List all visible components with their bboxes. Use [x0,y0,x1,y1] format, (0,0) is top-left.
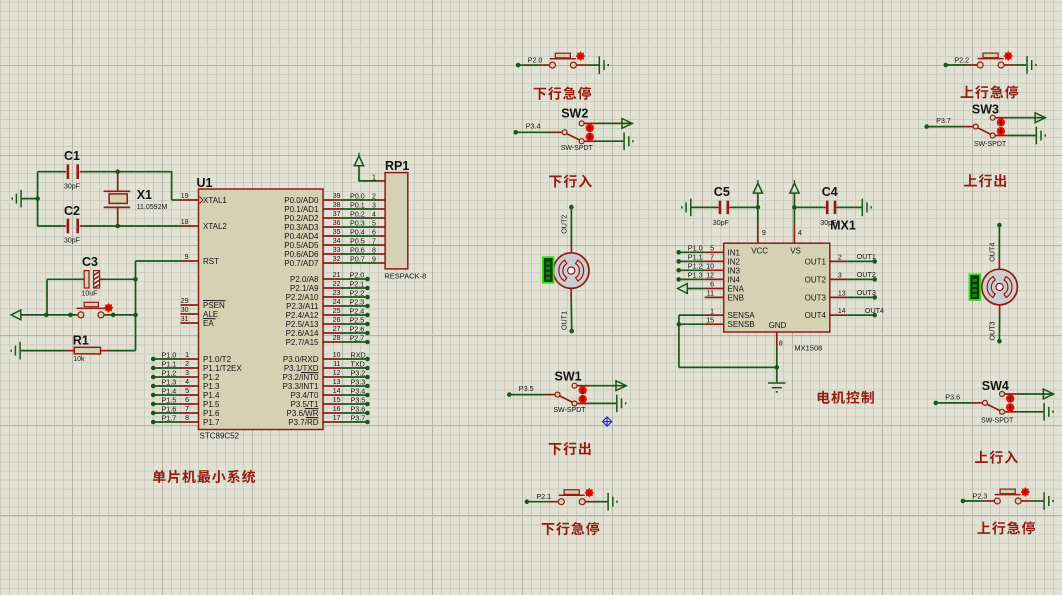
svg-text:4: 4 [372,211,376,218]
svg-text:RST: RST [203,257,219,266]
node OUT4 [872,313,877,318]
wire power to VS node [793,193,795,207]
caption 单片机最小系统 [153,470,255,483]
power symbol (VCC) [753,183,762,193]
wire SW4 throw to gnd [1017,411,1044,413]
node P2.5 [365,322,370,327]
wire P1.0 to IN1 [679,251,705,253]
pin 30 ALE [181,313,199,315]
pin 9 RST [181,260,199,262]
pin 1 SENSA [705,314,724,316]
wire P1.7 [153,421,180,423]
wire SW4 throw to terminal [1017,393,1054,395]
wire power to node [757,193,759,207]
pin 18 XTAL2 [181,225,199,227]
wire button to gnd [596,501,608,503]
motor pin bottom [570,288,572,298]
svg-text:SW2: SW2 [561,107,588,121]
svg-text:4: 4 [185,379,189,386]
svg-text:39: 39 [333,193,341,200]
resistor R1 [74,347,100,354]
wire SENS down [678,315,680,367]
svg-text:P0.2/AD2: P0.2/AD2 [284,214,319,223]
wire P1.1 [153,367,180,369]
node P3.6 [365,411,370,416]
caption 下行急停 (bottom middle) [542,522,600,535]
svg-text:P2.6: P2.6 [350,324,365,333]
wire SW1 throw to terminal [589,385,626,387]
node OUT1 [872,259,877,264]
pin 11 P3.1 [323,367,341,369]
pin 34 P0.5 [323,244,341,246]
wire P2.0 to button [518,64,540,66]
wire P0.0 [341,199,377,201]
svg-text:P0.5: P0.5 [350,236,365,245]
svg-text:P3.4/T0: P3.4/T0 [290,391,319,400]
svg-text:SW3: SW3 [972,102,999,116]
ground (SW2) [624,132,633,150]
svg-text:1: 1 [710,308,714,315]
node button right [133,313,138,318]
svg-text:P2.1: P2.1 [350,279,365,288]
wire gnd to R1 [21,350,65,352]
motor2 pin top [998,260,1000,269]
power symbol VCC [354,156,363,166]
svg-text:P1.2: P1.2 [688,261,703,270]
pin 16 P3.6 [323,412,341,414]
svg-text:2: 2 [372,193,376,200]
node XTAL2 net [115,224,120,229]
svg-text:10uF: 10uF [82,291,98,298]
svg-text:OUT1: OUT1 [857,252,876,261]
svg-text:P0.6: P0.6 [350,245,365,254]
svg-text:P1.1: P1.1 [688,252,703,261]
svg-text:OUT2: OUT2 [560,215,569,234]
svg-text:14: 14 [838,308,846,315]
RP1 pin 9 [377,262,385,264]
svg-text:C2: C2 [64,204,80,218]
wire to C2 [38,225,63,227]
node P2.1 [525,499,530,504]
svg-text:P2.2: P2.2 [350,288,365,297]
svg-text:7: 7 [372,238,376,245]
push button (P2.3 上行急停) [985,500,994,502]
svg-text:35: 35 [333,229,341,236]
svg-text:P3.6: P3.6 [351,404,366,413]
svg-text:5: 5 [372,220,376,227]
wire OUT3 [848,296,875,298]
svg-text:P2.0: P2.0 [528,56,543,65]
svg-text:C3: C3 [82,255,98,269]
wire to power [358,166,360,182]
pin 23 P2.2 [323,296,341,298]
wire to XTAL1 corner [118,171,172,173]
pin 6 ENA [705,288,724,290]
pin 3 OUT2 [830,278,848,280]
caption 下行急停 (top middle) [534,87,592,100]
wire P1.2 to IN3 [679,269,705,271]
svg-text:1: 1 [185,352,189,359]
svg-text:8: 8 [779,340,783,347]
svg-text:30pF: 30pF [64,184,80,191]
wire SENSB [679,323,705,325]
capacitor C4 [826,201,829,214]
R1 pin right [101,350,111,352]
wire OUT4 [848,314,875,316]
svg-text:P2.5/A13: P2.5/A13 [286,320,319,329]
caption 下行入 [549,175,592,188]
wire P2.6 [341,332,367,334]
svg-text:OUT2: OUT2 [805,275,827,284]
node P1.3 (driver) [676,277,681,282]
capacitor C5 [719,201,722,214]
wire VS node to C4 [794,206,823,208]
node P2.3 [365,304,370,309]
ground (driver) [768,383,786,392]
push button (P2.1 下行急停) [549,501,558,503]
pin 21 P2.0 [323,278,341,280]
svg-text:3: 3 [372,202,376,209]
svg-text:11.0592M: 11.0592M [137,204,168,211]
wire gnd to C5 [692,206,717,208]
svg-text:OUT2: OUT2 [857,270,876,279]
capacitor C2 [67,219,70,234]
caption 电机控制 [818,391,874,404]
wire C1 to node [83,171,118,173]
ground (R1) [11,342,20,360]
svg-text:18: 18 [181,219,189,226]
caption 下行出 [549,442,591,455]
node P2.4 [365,313,370,318]
RP1 pin 4 [377,217,385,219]
svg-text:P1.6: P1.6 [203,409,220,418]
wire OUT1 [570,299,573,332]
svg-text:OUT1: OUT1 [805,257,827,266]
svg-text:P1.0: P1.0 [688,243,703,252]
svg-text:P2.0/A8: P2.0/A8 [290,275,319,284]
pin 17 P3.7 [323,421,341,423]
svg-text:9: 9 [372,256,376,263]
svg-text:P2.3/A11: P2.3/A11 [286,302,319,311]
svg-text:27: 27 [333,326,341,333]
wire C3 to node [103,278,136,280]
wire P1.3 to IN4 [679,278,705,280]
svg-text:P3.6: P3.6 [945,392,960,401]
node P1.3 [151,384,156,389]
node driver gnd [775,365,780,370]
node SENSB [677,322,682,327]
pin 1 P1.0 [181,358,199,360]
svg-text:P1.4: P1.4 [203,391,220,400]
wire P2.3 to button [963,500,985,502]
node P3.4 [514,130,519,135]
pin 32 P0.7 [323,262,341,264]
svg-text:30: 30 [181,307,189,314]
wire P0.4 [341,235,377,237]
svg-text:C5: C5 [714,185,730,199]
svg-text:P1.2: P1.2 [203,373,220,382]
svg-text:OUT3: OUT3 [805,293,827,302]
svg-text:OUT3: OUT3 [987,321,996,340]
svg-text:P0.7: P0.7 [350,254,365,263]
svg-text:P3.7/RD: P3.7/RD [288,418,318,427]
svg-text:P0.0/AD0: P0.0/AD0 [284,196,319,205]
svg-text:P2.1/A9: P2.1/A9 [290,284,319,293]
pin 8 GND [776,332,778,346]
pin 4 P1.3 [181,385,199,387]
svg-text:5: 5 [710,246,714,253]
ground (P2.0) [599,56,608,74]
svg-text:6: 6 [710,282,714,289]
wire OUT3 [998,314,1000,341]
wire to XTAL2 [118,225,181,227]
svg-text:P1.1: P1.1 [162,359,177,368]
ground (C4) [862,199,871,217]
node OUT1 [569,329,574,334]
svg-text:6: 6 [372,229,376,236]
pin 19 XTAL1 [181,199,199,201]
node P1.7 [151,420,156,425]
svg-text:P2.3: P2.3 [973,491,988,500]
svg-text:P0.6/AD6: P0.6/AD6 [284,250,319,259]
svg-text:10k: 10k [73,356,85,363]
terminal arrow (reset) [11,310,21,320]
node OUT2 [872,277,877,282]
pin 14 OUT4 [830,314,848,316]
wire P0.1 [341,208,377,210]
node P1.6 [151,411,156,416]
svg-text:P3.1/TXD: P3.1/TXD [284,364,319,373]
C4 pin right [836,206,839,208]
svg-text:OUT4: OUT4 [865,306,884,315]
svg-text:P1.0: P1.0 [162,350,177,359]
svg-text:U1: U1 [197,176,213,190]
pin 12 P3.2 [323,376,341,378]
C1 pin right [80,171,83,173]
svg-text:P0.3/AD3: P0.3/AD3 [284,223,319,232]
svg-text:P3.4: P3.4 [526,122,541,131]
svg-text:16: 16 [333,406,341,413]
node P2.3 [961,499,966,504]
motor2 pin bottom [999,305,1001,314]
wire SW1 throw to gnd [589,402,616,404]
wire C2 to node [83,225,118,227]
svg-text:31: 31 [181,316,189,323]
svg-text:P2.3: P2.3 [350,297,365,306]
svg-text:P3.7: P3.7 [936,116,951,125]
svg-text:OUT3: OUT3 [857,288,876,297]
pin 35 P0.4 [323,235,341,237]
svg-text:15: 15 [333,397,341,404]
svg-text:33: 33 [333,247,341,254]
svg-text:R1: R1 [73,334,89,348]
RP1 pin 8 [377,253,385,255]
pin 13 P3.3 [323,385,341,387]
wire P0.6 [341,253,377,255]
wire P2.7 [341,341,367,343]
svg-text:24: 24 [333,299,341,306]
svg-text:SW-SPDT: SW-SPDT [981,417,1014,424]
svg-text:2: 2 [185,361,189,368]
ground (SW1) [617,395,626,413]
svg-text:38: 38 [333,202,341,209]
pin 27 P2.6 [323,332,341,334]
wire P3.5 to SW1 [509,394,545,396]
wire P3.6 to SW4 [936,402,973,404]
pin 7 IN2 [705,260,724,262]
svg-text:23: 23 [333,290,341,297]
pin 3 P1.2 [181,376,199,378]
svg-text:P3.7: P3.7 [351,413,366,422]
wire C5 to VCC node [732,206,758,208]
MCU U1 body [199,189,324,430]
wire C4 to gnd [839,206,861,208]
wire P3.6 [341,412,367,414]
node P1.5 [151,402,156,407]
wire SW2 throw to terminal [597,122,633,124]
node OUT2 [569,205,574,210]
svg-text:P1.5: P1.5 [162,395,177,404]
origin marker [602,417,612,427]
wire R1 to net [110,350,136,352]
wire to C1 [38,171,63,173]
wire GND pin down [776,346,778,367]
svg-text:P0.4: P0.4 [350,227,365,236]
rpm display (motor2) [970,274,981,300]
C3 pin left [81,278,84,280]
wire P1.2 [153,376,180,378]
node reset b [68,313,73,318]
pin 10 IN3 [705,269,724,271]
svg-text:P3.4: P3.4 [351,386,366,395]
svg-text:IN1: IN1 [728,248,741,257]
wire P2.5 [341,323,367,325]
svg-text:P3.3: P3.3 [351,377,366,386]
wire P2.2 [341,296,367,298]
svg-text:XTAL1: XTAL1 [203,196,227,205]
svg-text:SENSB: SENSB [728,320,755,329]
wire P0.3 [341,226,377,228]
node P1.2 [151,375,156,380]
pin 38 P0.1 [323,208,341,210]
svg-text:P2.5: P2.5 [350,315,365,324]
svg-text:SW4: SW4 [982,379,1009,393]
wire C3 down [46,279,48,315]
svg-text:P1.7: P1.7 [162,413,177,422]
node P2.1 [365,286,370,291]
node P2.6 [365,331,370,336]
pin 15 P3.5 [323,403,341,405]
wire vertical reset net [135,261,137,351]
svg-text:ENB: ENB [728,293,744,302]
wire P0.2 [341,217,377,219]
wire SENS to gnd net [679,366,777,368]
svg-text:P1.3: P1.3 [162,377,177,386]
ground (crystal) [12,190,21,208]
capacitor C1 [67,164,70,179]
node P1.1 (driver) [676,259,681,264]
svg-text:RP1: RP1 [385,159,409,173]
wire OUT2 [848,278,875,280]
node C3 right [133,277,138,282]
wire P1.5 [153,403,180,405]
svg-text:P2.4: P2.4 [350,306,365,315]
svg-text:29: 29 [181,298,189,305]
svg-text:P3.3/INT1: P3.3/INT1 [282,382,319,391]
svg-text:P0.2: P0.2 [350,209,365,218]
R1 pin left [65,350,74,352]
wire to C3 [47,278,81,280]
wire P0.7 [341,262,377,264]
wire P2.2 to button [946,64,968,66]
C1 pin left [63,171,66,173]
switch SW3 (SPDT) [964,126,974,128]
svg-text:14: 14 [333,388,341,395]
svg-text:XTAL2: XTAL2 [203,222,227,231]
node crystal gnd [35,196,40,201]
wire P2.4 [341,314,367,316]
svg-text:P3.2/INT0: P3.2/INT0 [282,373,319,382]
svg-text:SW-SPDT: SW-SPDT [553,407,586,414]
pin 6 P1.5 [181,403,199,405]
wire reset row right [104,314,135,316]
wire RP1 pin1 [359,180,377,182]
C2 pin right [80,225,83,227]
svg-text:2: 2 [838,254,842,261]
node P3.2 [365,375,370,380]
pin 31 EA [181,322,199,324]
svg-text:MX1: MX1 [830,218,856,232]
wire RST [136,260,181,262]
node P3.3 [365,384,370,389]
svg-text:4: 4 [798,230,802,237]
svg-text:P0.3: P0.3 [350,218,365,227]
pin 12 IN4 [705,278,724,280]
wire reset row left [21,314,78,316]
svg-text:P2.4/A12: P2.4/A12 [286,311,319,320]
pin 7 P1.6 [181,412,199,414]
wire SW3 throw to gnd [1008,135,1036,137]
C2 pin left [63,225,66,227]
wire OUT4 [998,225,1000,260]
wire node to VCC pin [757,207,759,224]
svg-text:P3.5: P3.5 [351,395,366,404]
switch SW1 (SPDT) [545,394,555,396]
capacitor C3 (electrolytic) [84,271,89,288]
svg-text:22: 22 [333,281,341,288]
terminal arrow (SW4) [1043,389,1053,399]
svg-text:IN3: IN3 [728,266,741,275]
wire node to VS pin [793,207,795,224]
svg-text:13: 13 [838,290,846,297]
wire OUT2 [570,207,572,243]
svg-text:11: 11 [707,291,714,298]
svg-text:P0.1: P0.1 [350,200,365,209]
svg-text:15: 15 [706,317,714,324]
node P2.7 [365,340,370,345]
pin 25 P2.4 [323,314,341,316]
pin 33 P0.6 [323,253,341,255]
svg-text:P1.3: P1.3 [688,270,703,279]
wire gnd to junction [22,198,38,200]
wire SW3 throw to terminal [1008,117,1046,119]
svg-text:P3.5/T1: P3.5/T1 [290,400,319,409]
wire SW2 throw to gnd [597,140,624,142]
pin 9 VCC [757,225,759,244]
wire to ground sym [776,367,778,382]
node P2.2 [944,63,949,68]
node P2.0 [516,63,521,68]
